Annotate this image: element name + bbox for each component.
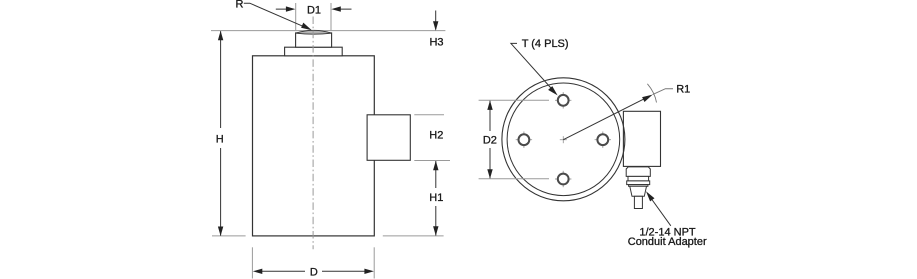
T leader arrowhead xyxy=(548,86,558,95)
dimension H1 arrow down xyxy=(433,226,438,236)
extension line bottom-right xyxy=(383,235,444,237)
conduit adapter stem xyxy=(634,196,642,208)
flange (button base) xyxy=(285,47,343,56)
load button dome (grey cap) xyxy=(296,30,332,34)
R1 arc tick xyxy=(647,84,656,103)
bolt hole bottom xyxy=(555,171,571,187)
svg-text:D1: D1 xyxy=(307,4,321,16)
dimension D2 arrow down xyxy=(487,169,492,179)
svg-text:T (4 PLS): T (4 PLS) xyxy=(522,38,569,50)
H2 extension line top xyxy=(414,114,444,116)
R1 arrowhead xyxy=(642,95,653,102)
D extension line right xyxy=(373,247,375,278)
conduit adapter collar xyxy=(626,167,650,177)
svg-text:D2: D2 xyxy=(483,135,497,147)
D1 extension line left xyxy=(295,3,297,30)
bolt hole left xyxy=(516,132,532,148)
extension line top (top of button) xyxy=(211,30,445,32)
svg-text:D: D xyxy=(310,266,318,278)
inner circle xyxy=(507,83,620,196)
dimension D arrow left xyxy=(253,269,262,274)
connector block (right view) xyxy=(623,111,660,166)
D1 extension line right xyxy=(330,3,332,30)
D extension line left xyxy=(251,247,253,278)
dimension D arrow right xyxy=(364,269,374,274)
load button xyxy=(296,33,332,47)
dimension D2 line xyxy=(489,101,491,179)
T leader line xyxy=(511,43,555,92)
conduit adapter ring 2 xyxy=(627,181,650,185)
D2 extension line bottom xyxy=(479,178,549,180)
conduit adapter ring 3 xyxy=(629,185,648,187)
centerline of cylinder xyxy=(312,17,314,250)
dimension H3 arrow xyxy=(435,11,437,30)
dimension H1 line xyxy=(435,161,437,236)
svg-text:R1: R1 xyxy=(676,84,690,96)
conduit adapter nut xyxy=(630,186,647,196)
dimension H line xyxy=(220,31,222,235)
svg-text:H1: H1 xyxy=(429,192,443,204)
svg-text:H: H xyxy=(216,133,224,145)
bolt hole top xyxy=(555,92,571,108)
center mark xyxy=(560,136,567,143)
dimension H arrow down xyxy=(218,227,223,237)
conduit leader line xyxy=(649,196,671,226)
dimension D2 arrow up xyxy=(487,100,492,110)
D1 left arrow xyxy=(276,8,292,10)
svg-text:R: R xyxy=(236,0,244,10)
side cable block xyxy=(367,115,410,161)
outer circle xyxy=(502,78,625,201)
dimension H arrow up xyxy=(218,31,223,41)
conduit leader arrowhead xyxy=(646,191,655,201)
dimension H1 arrow up xyxy=(433,161,438,171)
dimension D line xyxy=(256,270,371,272)
R1 elbow xyxy=(653,89,673,95)
extension line bottom-left xyxy=(212,235,246,237)
svg-text:H2: H2 xyxy=(429,130,443,142)
svg-text:H3: H3 xyxy=(429,37,443,49)
D1 right arrow xyxy=(335,8,352,10)
conduit adapter ring 1 xyxy=(628,176,649,181)
R leader arrowhead xyxy=(301,23,312,31)
svg-text:Conduit Adapter: Conduit Adapter xyxy=(628,236,707,248)
R leader line xyxy=(244,3,308,28)
D2 extension line top xyxy=(479,99,549,101)
R1 leader line from center xyxy=(563,96,650,140)
bolt hole right xyxy=(595,132,611,148)
cylinder body xyxy=(253,56,375,236)
H2 extension line bottom xyxy=(414,160,450,162)
